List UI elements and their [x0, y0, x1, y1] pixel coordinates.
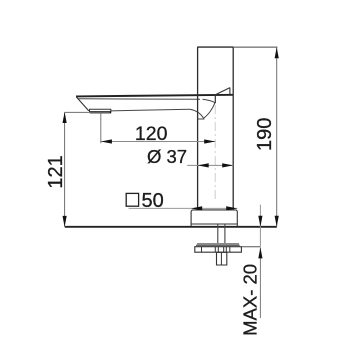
washer bottom outline — [196, 244, 240, 246]
dim diameter37 line — [187, 164, 233, 166]
spout back sweep diagonal — [215, 88, 230, 96]
dim 120 extension line — [100, 114, 102, 144]
dim 121 arrow up — [63, 112, 67, 123]
spout back tip tick — [229, 88, 231, 96]
stud nut internal line — [220, 252, 222, 265]
dim 190 arrow down — [275, 216, 279, 227]
dim MAX20 down arrow — [258, 216, 262, 227]
mounting deck line — [65, 226, 277, 228]
column left edge — [197, 47, 199, 210]
washer extension line — [240, 246, 260, 248]
svg-text:Ø 37: Ø 37 — [147, 146, 187, 167]
dim MAX20 up arrow — [258, 247, 262, 258]
dim 120 line — [101, 141, 216, 143]
stud nut — [217, 252, 227, 265]
svg-text:120: 120 — [135, 123, 168, 145]
dim square50 arrow left — [191, 206, 202, 210]
base flange — [191, 210, 237, 227]
dim 190 arrow up — [275, 47, 279, 58]
dim 121 line — [64, 112, 66, 226]
column right edge — [232, 47, 234, 210]
dim square50 arrow right — [226, 206, 237, 210]
dim diameter37 arrow right — [222, 163, 233, 167]
dim 121 arrow down — [63, 216, 67, 227]
dim diameter37 arrow left — [198, 163, 209, 167]
dim 120 arrow right — [204, 139, 215, 143]
column top edge — [197, 46, 233, 48]
column centerline — [214, 105, 216, 202]
junction cusp base — [198, 118, 205, 120]
clamp plate internal lines — [202, 247, 230, 253]
190 top extension line — [233, 46, 277, 48]
aerator body — [90, 109, 111, 111]
svg-text:50: 50 — [142, 190, 164, 212]
svg-text:190: 190 — [254, 118, 276, 151]
spout top edge — [76, 95, 233, 97]
dim 120 arrow left — [101, 139, 112, 143]
dim 121 extension line — [65, 111, 110, 113]
aerator bottom thick edge — [90, 111, 111, 113]
spout inner top line — [79, 98, 201, 101]
svg-text:121: 121 — [45, 155, 67, 188]
spout tip chamfer — [76, 97, 89, 111]
svg-text:MAX- 20: MAX- 20 — [239, 264, 260, 336]
shank below deck — [218, 224, 225, 243]
dim square50 line — [129, 207, 238, 209]
clamp plate — [195, 247, 242, 253]
spout underside line — [111, 109, 191, 111]
dim MAX20 lower line — [259, 247, 261, 318]
junction upper curve — [203, 99, 215, 102]
junction sweep curve — [203, 103, 215, 119]
dim MAX20 upper line — [259, 205, 261, 247]
junction lower curve — [190, 109, 204, 118]
junction vertical edge — [214, 95, 216, 103]
square symbol — [126, 193, 138, 206]
washer gray band — [197, 243, 239, 245]
dim 190 line — [276, 47, 278, 227]
